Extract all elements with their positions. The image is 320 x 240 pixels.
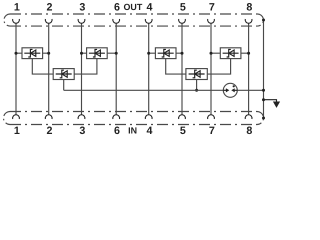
svg-text:5: 5 xyxy=(180,125,186,137)
svg-text:7: 7 xyxy=(209,2,215,14)
svg-text:3: 3 xyxy=(79,2,85,14)
svg-text:6: 6 xyxy=(114,2,120,14)
svg-text:7: 7 xyxy=(209,125,215,137)
svg-text:5: 5 xyxy=(180,2,186,14)
svg-text:1: 1 xyxy=(14,125,20,137)
svg-text:IN: IN xyxy=(128,126,137,136)
svg-text:OUT: OUT xyxy=(124,2,143,12)
svg-text:6: 6 xyxy=(114,125,120,137)
svg-text:2: 2 xyxy=(47,2,53,14)
svg-text:3: 3 xyxy=(79,125,85,137)
svg-text:8: 8 xyxy=(246,125,252,137)
svg-text:2: 2 xyxy=(47,125,53,137)
svg-text:4: 4 xyxy=(147,2,153,14)
svg-text:8: 8 xyxy=(246,2,252,14)
svg-text:4: 4 xyxy=(147,125,153,137)
svg-text:1: 1 xyxy=(14,2,20,14)
